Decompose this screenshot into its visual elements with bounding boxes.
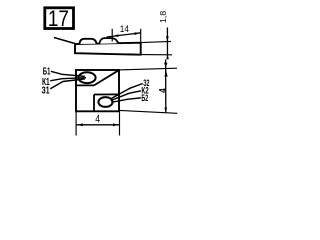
svg-text:14: 14 — [120, 24, 129, 34]
dimension 1,8 extension top — [141, 41, 171, 42]
inner box left edge — [93, 95, 95, 112]
chamber bottom line — [76, 84, 94, 86]
right dim 4 arrow up (below top extension) — [164, 70, 167, 76]
leader K2 — [111, 91, 141, 101]
bottom dim 4 extension right — [119, 111, 121, 136]
svg-text:Б1: Б1 — [43, 67, 51, 78]
transistor 1 ellipse — [78, 72, 95, 83]
svg-text:З1: З1 — [42, 86, 50, 97]
right dim 4 line — [165, 60, 167, 113]
leader B1 — [51, 71, 85, 76]
svg-text:Б2: Б2 — [141, 93, 148, 103]
dimension 1,8 line — [166, 28, 168, 59]
leader Z1 — [50, 79, 85, 89]
bottom dim 4 extension left — [75, 111, 77, 135]
bottom dim 4 arrow left — [77, 123, 83, 126]
chamber diagonal — [94, 70, 119, 85]
top view dome 2 — [99, 38, 118, 44]
right dim 4 extension top — [119, 68, 177, 70]
svg-text:1,8: 1,8 — [159, 10, 168, 23]
inner box top edge — [94, 93, 119, 95]
leader B2 — [111, 98, 141, 102]
svg-text:4: 4 — [95, 114, 100, 126]
bottom dim 4 arrow right — [113, 123, 119, 126]
leader from figure box to top view — [54, 38, 79, 45]
right dim 4 arrow bottom (points down at extension) — [164, 108, 167, 113]
figure number box 17 — [45, 6, 74, 31]
svg-text:17: 17 — [48, 6, 69, 31]
dimension 1,8 arrow up — [166, 55, 169, 59]
dimension 14 arrow left — [112, 34, 118, 37]
dimension 14 arrow right — [134, 32, 140, 35]
leader Z2 — [111, 84, 142, 99]
right dim 4 extension bottom — [119, 110, 177, 113]
svg-text:4: 4 — [156, 88, 168, 93]
dimension 14 extension line right — [140, 29, 142, 43]
dimension 14 extension line left — [111, 29, 113, 42]
leader K1 — [50, 78, 86, 81]
dimension 1,8 extension bottom — [141, 54, 172, 56]
transistor 2 ellipse — [98, 97, 112, 107]
front view outer square — [76, 70, 119, 111]
dimension 1,8 arrow down — [166, 36, 169, 41]
top view base slab — [75, 43, 141, 55]
right dim 4 arrow top (points down at extension) — [164, 63, 167, 69]
top view dome 1 — [79, 39, 96, 44]
bottom dim 4 line — [76, 124, 119, 126]
dimension 14 line — [107, 33, 141, 37]
